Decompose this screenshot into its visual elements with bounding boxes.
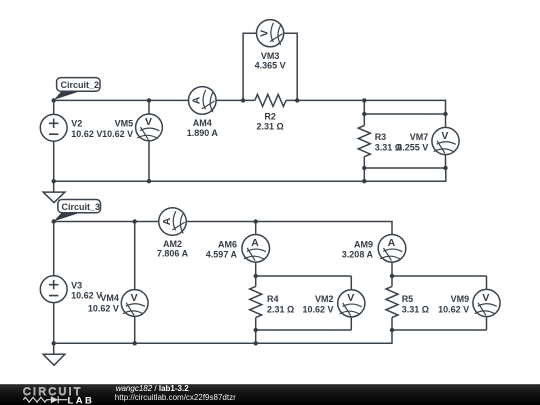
svg-text:V: V	[482, 292, 489, 304]
svg-text:wangc182 / lab1-3.2: wangc182 / lab1-3.2	[116, 384, 190, 393]
svg-text:1.890 A: 1.890 A	[187, 128, 219, 138]
svg-text:http://circuitlab.com/cx22f9s8: http://circuitlab.com/cx22f9s87dtzr	[115, 393, 236, 402]
svg-text:VM3: VM3	[261, 51, 280, 61]
svg-text:AM2: AM2	[163, 239, 182, 249]
svg-text:10.62 V: 10.62 V	[438, 304, 469, 314]
svg-text:VM5: VM5	[115, 119, 134, 129]
svg-text:VM7: VM7	[410, 132, 429, 142]
svg-text:R2: R2	[264, 112, 276, 122]
svg-text:R5: R5	[402, 294, 414, 304]
svg-text:A: A	[161, 217, 173, 225]
svg-text:A: A	[251, 237, 259, 249]
svg-text:Circuit_3: Circuit_3	[62, 202, 101, 212]
svg-text:AM4: AM4	[193, 118, 212, 128]
svg-text:10.62 V: 10.62 V	[102, 129, 133, 139]
svg-text:4.365 V: 4.365 V	[255, 61, 286, 71]
svg-text:AM6: AM6	[218, 239, 237, 249]
svg-text:10.62 V: 10.62 V	[302, 304, 333, 314]
svg-text:V: V	[347, 292, 354, 304]
svg-text:4.597 A: 4.597 A	[206, 250, 238, 260]
svg-text:VM9: VM9	[451, 294, 470, 304]
svg-text:7.806 A: 7.806 A	[157, 249, 189, 259]
svg-text:6.255 V: 6.255 V	[397, 142, 428, 152]
svg-text:10.62 V: 10.62 V	[71, 129, 102, 139]
svg-text:LAB: LAB	[68, 395, 95, 405]
svg-text:10.62 V: 10.62 V	[88, 303, 119, 313]
svg-text:A: A	[388, 237, 396, 249]
svg-text:AM9: AM9	[354, 239, 373, 249]
svg-text:A: A	[191, 96, 203, 104]
svg-text:3.31 Ω: 3.31 Ω	[402, 304, 429, 314]
svg-text:V: V	[441, 130, 448, 142]
svg-text:R3: R3	[375, 132, 387, 142]
svg-text:Circuit_2: Circuit_2	[61, 80, 100, 90]
svg-text:2.31 Ω: 2.31 Ω	[267, 304, 294, 314]
svg-text:V2: V2	[71, 119, 82, 129]
svg-text:V: V	[259, 30, 271, 37]
svg-text:V: V	[145, 116, 152, 128]
svg-text:3.208 A: 3.208 A	[342, 250, 374, 260]
svg-text:V: V	[131, 292, 138, 304]
svg-text:VM4: VM4	[100, 293, 119, 303]
svg-text:2.31 Ω: 2.31 Ω	[256, 121, 283, 131]
svg-text:10.62 V: 10.62 V	[71, 291, 102, 301]
svg-text:V3: V3	[71, 280, 82, 290]
svg-text:VM2: VM2	[315, 294, 334, 304]
svg-text:R4: R4	[267, 294, 279, 304]
